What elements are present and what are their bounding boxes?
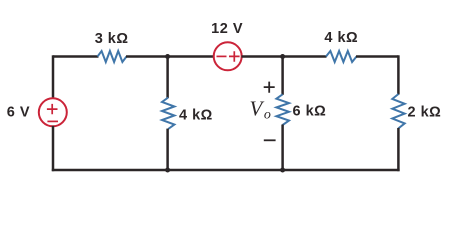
wire middle branch 1 lower (4k resistor to bottom rail) [166,129,169,170]
svg-text:12 V: 12 V [211,21,243,37]
12 V source plus sign [229,51,240,62]
resistor R 2 kOhm (vertical) [392,94,404,128]
node junction dot bottom-right [280,168,285,173]
wire top rail between 12V source and 4k resistor [242,55,327,58]
svg-text:2 kΩ: 2 kΩ [408,105,442,121]
wire bottom rail [52,169,400,172]
svg-text:4 kΩ: 4 kΩ [179,108,213,124]
voltage source 12 V (circle) [214,42,242,70]
wire right branch lower (2k resistor to bottom rail) [397,128,400,171]
wire top rail right of 4k resistor [356,55,398,58]
wire left branch lower (6V source down to bottom rail) [52,126,55,171]
svg-text:Vo: Vo [250,96,271,122]
wire right branch upper (top-right corner to 2k resistor) [397,55,400,94]
wire middle branch 1 upper (top rail to vertical 4k resistor) [166,57,169,99]
12 V source minus sign [217,55,227,57]
resistor R 4 kOhm (top right, horizontal) [326,51,357,62]
resistor R 3 kOhm (top left, horizontal) [98,51,127,62]
resistor R 4 kOhm (middle, vertical) [162,98,174,130]
6 V source plus sign [47,104,58,114]
plus sign of Vo polarity [264,82,275,93]
node junction dot top-right (node joining 12V, 6k, 4k) [280,54,285,59]
voltage source 6 V (circle) [39,98,67,126]
6 V source minus sign [47,120,58,122]
svg-text:4 kΩ: 4 kΩ [324,30,358,46]
wire top rail segment left of 3k resistor [53,55,99,58]
wire top rail between 3k resistor and 12V source [126,55,214,58]
node junction dot top-left (node joining 3k, vertical 4k, 12V) [165,54,170,59]
node junction dot bottom-left [165,168,170,173]
svg-text:3 kΩ: 3 kΩ [95,31,129,47]
minus sign of Vo polarity [264,139,276,141]
wire left branch upper (top-left corner down to 6V source) [52,55,55,99]
resistor R 6 kOhm (vertical) [276,94,289,125]
wire middle branch 2 lower (6k resistor to bottom rail) [281,125,284,171]
svg-text:6 kΩ: 6 kΩ [293,104,327,120]
wire middle branch 2 upper (top rail to 6k resistor) [281,57,284,95]
svg-text:6 V: 6 V [7,105,30,121]
